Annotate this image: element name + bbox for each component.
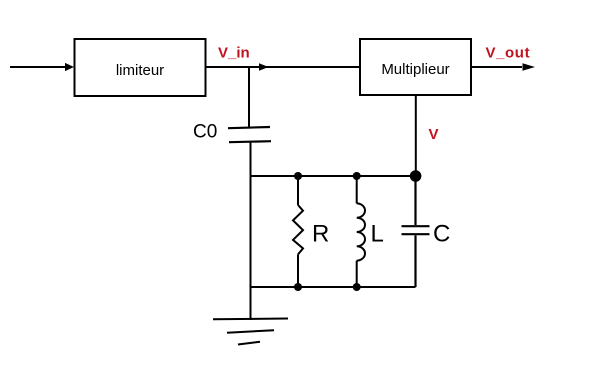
svg-text:L: L bbox=[371, 221, 384, 248]
wire from C0 down to ground stem bbox=[250, 143, 252, 321]
arrowhead on V_in wire bbox=[259, 63, 269, 71]
svg-text:C: C bbox=[433, 221, 450, 248]
node dot R top bbox=[294, 172, 302, 180]
svg-text:R: R bbox=[312, 221, 329, 248]
capacitor C0 bbox=[228, 127, 271, 142]
wire bottom rail bbox=[250, 286, 416, 288]
svg-text:V: V bbox=[429, 126, 439, 143]
wire Multiplieur to node V bbox=[415, 95, 417, 176]
ground bbox=[213, 319, 288, 345]
node dot L bottom bbox=[353, 283, 361, 291]
wire V_in to Multiplieur bbox=[206, 66, 361, 68]
resistor R1 bbox=[293, 176, 303, 287]
wire top rail bbox=[250, 175, 416, 177]
output arrowhead bbox=[523, 63, 536, 70]
svg-text:V_out: V_out bbox=[486, 45, 531, 62]
node dot L top bbox=[353, 172, 361, 180]
node dot R bottom bbox=[294, 283, 302, 291]
wire output bbox=[471, 66, 522, 68]
svg-text:C0: C0 bbox=[193, 122, 217, 143]
svg-text:V_in: V_in bbox=[218, 45, 250, 62]
block Multiplieur bbox=[360, 39, 471, 95]
block limiteur bbox=[75, 39, 206, 96]
capacitor C bbox=[402, 176, 430, 287]
svg-text:limiteur: limiteur bbox=[116, 62, 164, 79]
wire input line bbox=[10, 66, 66, 68]
node V junction dot bbox=[410, 170, 422, 182]
input arrowhead bbox=[65, 63, 74, 71]
svg-text:Multiplieur: Multiplieur bbox=[381, 61, 449, 78]
wire from V_in node down to C0 bbox=[248, 67, 250, 127]
inductor L1 bbox=[357, 176, 365, 287]
